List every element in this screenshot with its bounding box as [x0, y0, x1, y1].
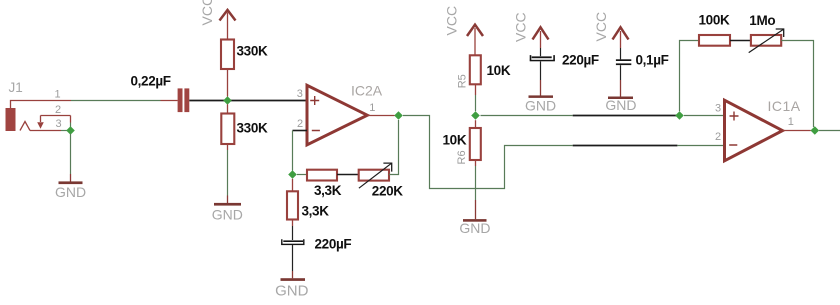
wire to IC1A pin2 (black): [573, 145, 678, 147]
wire C 0,1uF to GND: [620, 65, 622, 80]
resistor 3,3K horizontal: [307, 170, 337, 181]
capacitor 220uF (feedback, polarized): [281, 239, 304, 245]
wire junction down to GND (green): [70, 134, 72, 174]
svg-text:J1: J1: [9, 80, 23, 95]
svg-text:GND: GND: [605, 97, 636, 113]
capacitor 0,22uF: [161, 88, 190, 112]
wire junction to IC1A pin3 (green): [684, 115, 725, 117]
svg-text:1: 1: [369, 102, 375, 114]
svg-text:R6: R6: [456, 150, 468, 164]
VCC symbol (330K divider): [220, 10, 236, 40]
GND pin stub (red): [70, 174, 72, 182]
svg-text:330K: 330K: [237, 120, 268, 135]
wire to IC1A pin2 (green end): [677, 145, 724, 147]
wire node to R 3,3K horizontal (green): [297, 174, 307, 176]
resistor 330K lower: [221, 114, 234, 145]
svg-text:VCC: VCC: [593, 12, 609, 42]
svg-text:0,22µF: 0,22µF: [131, 74, 171, 89]
svg-text:VCC: VCC: [199, 0, 215, 26]
svg-text:100K: 100K: [699, 12, 730, 27]
svg-text:10K: 10K: [487, 63, 511, 78]
wire node to IC1A pin3 (green): [481, 115, 573, 117]
ground symbol (R6): [463, 219, 487, 222]
svg-text:IC2A: IC2A: [351, 83, 383, 99]
svg-text:330K: 330K: [237, 43, 268, 58]
IC1A output pin stub (red): [783, 130, 811, 132]
svg-text:220µF: 220µF: [562, 52, 599, 67]
svg-text:3,3K: 3,3K: [314, 183, 342, 198]
IC2A output pin stub (red): [367, 115, 394, 117]
wire IC1A output to right edge (green): [819, 130, 840, 132]
wire J1 pin2 drop to junction (green): [70, 123, 72, 131]
svg-text:GND: GND: [55, 184, 86, 200]
wire C 220uF to GND (green+red): [292, 245, 294, 271]
ground symbol (C 220uF mid): [529, 95, 554, 98]
junction IC1A pin3 node: [675, 111, 684, 120]
wire R6 to GND (red+green+red): [475, 160, 477, 166]
svg-text:220K: 220K: [372, 184, 403, 199]
wire 330K lower to GND (red+green): [227, 144, 229, 150]
resistor R6: [470, 128, 481, 160]
svg-text:1: 1: [55, 89, 61, 101]
svg-text:2: 2: [297, 118, 303, 130]
svg-text:1: 1: [788, 116, 794, 128]
op-amp IC2A: [307, 85, 367, 145]
wire node to IC1A pin3 (black): [573, 115, 678, 117]
wire IC2A pin2 (black): [293, 130, 308, 132]
trimmer 1Mo: [749, 29, 784, 53]
VCC symbol (C 0,1uF): [613, 27, 629, 59]
junction IC1A output: [811, 126, 820, 135]
svg-text:R5: R5: [456, 74, 468, 88]
wire feedback node down to R 3,3K vertical (red pin): [292, 179, 294, 192]
connector J1 body: [6, 101, 72, 132]
junction IC2A output: [394, 111, 403, 120]
wire R5 to node (red+green): [475, 84, 477, 95]
capacitor 220uF mid (polarized): [530, 55, 555, 61]
VCC symbol (C 220uF mid): [533, 27, 549, 56]
trimmer 220K: [359, 163, 392, 188]
junction R5/R6 node: [471, 111, 480, 120]
wire IC2A pin2 down to feedback node (green): [292, 131, 294, 171]
wire node to R6 (red pin): [475, 120, 477, 128]
wire 3,3K vertical to C 220uF (red+green): [292, 220, 294, 227]
resistor 100K: [699, 35, 730, 46]
wire between 100K and 1Mo (black): [730, 40, 751, 42]
svg-text:3: 3: [56, 118, 62, 130]
svg-text:220µF: 220µF: [315, 237, 352, 252]
wire 1Mo to output node (green): [781, 41, 813, 128]
svg-text:0,1µF: 0,1µF: [636, 52, 669, 67]
svg-text:1Mo: 1Mo: [749, 13, 775, 28]
resistor R5: [470, 55, 481, 84]
svg-text:10K: 10K: [443, 132, 467, 147]
svg-text:IC1A: IC1A: [768, 98, 801, 114]
svg-text:2: 2: [715, 131, 721, 143]
svg-text:3,3K: 3,3K: [302, 203, 330, 218]
ground symbol (J1): [59, 181, 83, 184]
VCC symbol (R5): [467, 25, 483, 56]
wire 220K to output node (green): [389, 120, 399, 175]
capacitor 0,1uF: [616, 59, 631, 65]
svg-text:GND: GND: [212, 206, 243, 222]
resistor 330K upper: [221, 40, 234, 70]
svg-text:3: 3: [715, 103, 721, 115]
wire J1 pin3 to junction (green): [61, 130, 67, 132]
svg-text:GND: GND: [525, 97, 556, 113]
ground symbol (feedback): [281, 278, 306, 281]
svg-text:3: 3: [297, 88, 303, 100]
wire between 3,3K and 220K (black): [337, 174, 359, 176]
wire node to 330K lower (red pin): [227, 104, 229, 113]
junction at J1 ground node: [66, 126, 75, 135]
wire C 0,22uF to IC2A pin3 (black): [189, 100, 307, 102]
wire net from J1 pin1 to C 0,22uF (green): [71, 100, 161, 102]
ground symbol (C 0,1uF): [608, 97, 633, 100]
wire C 220uF mid to GND: [540, 61, 542, 80]
wire junction up to 100K (green): [680, 41, 700, 112]
ground symbol (330K divider): [214, 203, 241, 206]
resistor 3,3K vertical: [287, 191, 298, 219]
svg-text:GND: GND: [459, 220, 490, 236]
op-amp IC1A: [725, 100, 783, 161]
wire 330K upper to node (red pin): [227, 69, 229, 97]
svg-text:GND: GND: [275, 282, 309, 299]
svg-text:VCC: VCC: [513, 12, 529, 42]
junction divider node: [223, 96, 232, 105]
wire output node right then down (green): [403, 116, 573, 189]
svg-text:2: 2: [55, 104, 61, 116]
svg-text:VCC: VCC: [444, 6, 460, 36]
junction feedback node: [288, 170, 297, 179]
